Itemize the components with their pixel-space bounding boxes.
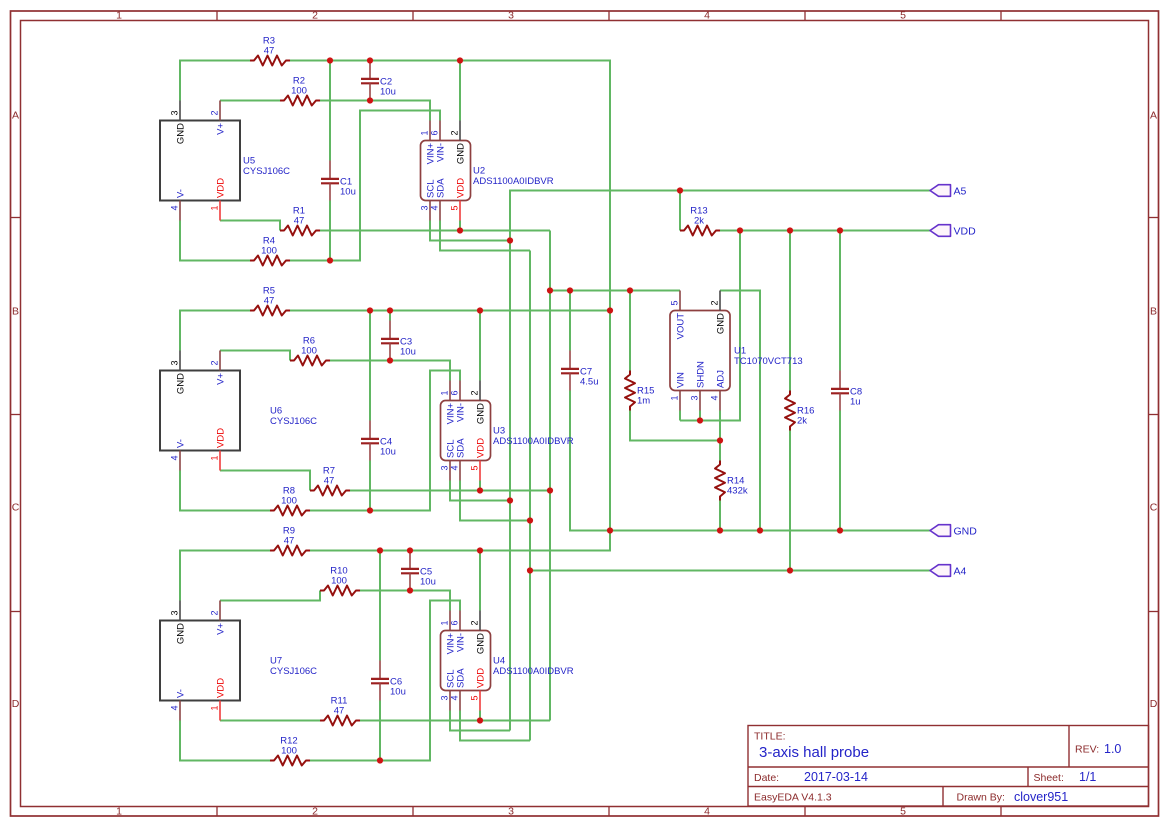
net flag A5 xyxy=(930,185,967,198)
junction xyxy=(367,97,373,103)
junction xyxy=(717,437,723,443)
net flag A4 xyxy=(930,565,967,578)
junction xyxy=(607,307,613,313)
svg-text:4: 4 xyxy=(450,466,460,471)
svg-text:100: 100 xyxy=(301,346,317,357)
svg-text:2: 2 xyxy=(710,300,720,305)
adc U2 xyxy=(420,121,554,221)
resistor R11 xyxy=(320,696,360,726)
resistor R12 xyxy=(270,736,310,766)
svg-text:VIN-: VIN- xyxy=(436,143,447,162)
svg-text:EasyEDA V4.1.3: EasyEDA V4.1.3 xyxy=(754,792,832,804)
junction xyxy=(527,567,533,573)
svg-text:1: 1 xyxy=(210,206,220,211)
resistor R1 xyxy=(280,206,320,236)
adc U4 xyxy=(440,611,574,711)
svg-text:5: 5 xyxy=(450,206,460,211)
wire V+2 xyxy=(220,351,290,361)
svg-text:2: 2 xyxy=(210,360,220,365)
svg-text:10u: 10u xyxy=(400,347,416,358)
pin 1 VDD xyxy=(219,701,221,721)
svg-text:5: 5 xyxy=(900,806,906,818)
pin 2 V+ xyxy=(219,601,221,621)
wire GND xyxy=(720,291,760,531)
wire V3 xyxy=(569,291,571,351)
svg-text:1: 1 xyxy=(210,456,220,461)
svg-text:VDD: VDD xyxy=(476,668,487,688)
svg-text:ADS1100A0IDBVR: ADS1100A0IDBVR xyxy=(493,666,574,677)
svg-text:4: 4 xyxy=(450,696,460,701)
svg-text:SDA: SDA xyxy=(436,178,447,198)
resistor R8 xyxy=(270,486,310,516)
pin 4 V- xyxy=(179,201,181,221)
adc U3 xyxy=(440,381,574,481)
wire SDA xyxy=(440,221,530,251)
svg-text:CYSJ106C: CYSJ106C xyxy=(270,416,317,427)
svg-text:D: D xyxy=(12,698,20,710)
pin 4 SDA xyxy=(459,461,461,481)
pin 2 GND xyxy=(719,291,721,311)
wire V3 xyxy=(220,221,280,231)
wire GND xyxy=(290,310,610,312)
pin 1 VIN xyxy=(679,391,681,411)
wire GND xyxy=(570,391,930,531)
wire GND xyxy=(180,311,250,351)
svg-text:1/1: 1/1 xyxy=(1079,770,1096,784)
svg-text:2k: 2k xyxy=(797,416,807,427)
junction xyxy=(477,717,483,723)
svg-text:10u: 10u xyxy=(420,577,436,588)
wire GND xyxy=(310,531,610,551)
title block xyxy=(748,726,1149,807)
regulator U1 xyxy=(670,291,803,411)
pin 3 GND xyxy=(179,601,181,621)
svg-text:1: 1 xyxy=(670,396,680,401)
capacitor C5 xyxy=(401,551,436,591)
svg-text:VDD: VDD xyxy=(954,225,977,237)
svg-text:CYSJ106C: CYSJ106C xyxy=(270,666,317,677)
wire V-1 xyxy=(290,111,440,261)
junction xyxy=(507,497,513,503)
wire V-1 xyxy=(180,221,250,261)
resistor R10 xyxy=(320,566,360,596)
wire C3a xyxy=(389,311,391,321)
svg-text:GND: GND xyxy=(176,123,187,144)
wire VDD xyxy=(789,231,791,391)
svg-text:GND: GND xyxy=(176,373,187,394)
junction xyxy=(477,487,483,493)
junction xyxy=(567,287,573,293)
svg-text:2: 2 xyxy=(210,610,220,615)
svg-text:V+: V+ xyxy=(216,373,227,385)
svg-text:clover951: clover951 xyxy=(1014,790,1068,804)
pin 4 V- xyxy=(179,451,181,471)
svg-text:5: 5 xyxy=(470,466,480,471)
junction xyxy=(717,527,723,533)
svg-text:VIN: VIN xyxy=(676,372,687,388)
junction xyxy=(327,257,333,263)
svg-text:1: 1 xyxy=(440,620,450,625)
svg-text:4: 4 xyxy=(170,206,180,211)
wire GND xyxy=(180,551,270,601)
wire V+1 xyxy=(220,100,280,102)
svg-text:GND: GND xyxy=(954,525,978,537)
svg-text:432k: 432k xyxy=(727,486,748,497)
resistor R3 xyxy=(250,36,290,66)
svg-text:D: D xyxy=(1150,698,1158,710)
wire V+1 xyxy=(320,101,430,121)
wire C8a xyxy=(839,231,841,371)
svg-text:Sheet:: Sheet: xyxy=(1034,772,1064,784)
svg-text:GND: GND xyxy=(456,143,467,164)
svg-text:3: 3 xyxy=(690,396,700,401)
wire V3 xyxy=(320,230,550,232)
svg-text:A: A xyxy=(12,110,19,122)
junction xyxy=(507,237,513,243)
wire V3 xyxy=(220,471,310,491)
svg-text:A5: A5 xyxy=(954,185,967,197)
wire GND xyxy=(839,411,841,531)
svg-text:A: A xyxy=(1150,110,1157,122)
wire VDD xyxy=(699,411,701,421)
wire V-3 xyxy=(310,601,460,761)
svg-text:10u: 10u xyxy=(390,687,406,698)
svg-text:U5: U5 xyxy=(243,156,255,167)
junction xyxy=(757,527,763,533)
svg-text:3: 3 xyxy=(420,206,430,211)
wire GND xyxy=(479,551,481,611)
wire ADJ xyxy=(719,411,721,461)
junction xyxy=(377,757,383,763)
svg-text:A4: A4 xyxy=(954,565,967,577)
pin 3 SHDN xyxy=(699,391,701,411)
pin 3 SCL xyxy=(429,201,431,221)
wire V3 xyxy=(550,290,680,292)
svg-text:100: 100 xyxy=(281,496,297,507)
svg-text:VDD: VDD xyxy=(476,438,487,458)
svg-text:2: 2 xyxy=(210,110,220,115)
svg-text:VDD: VDD xyxy=(456,178,467,198)
resistor R14 xyxy=(715,461,748,501)
svg-text:47: 47 xyxy=(294,216,305,227)
net flag GND xyxy=(930,525,977,538)
wire SDA xyxy=(529,251,531,741)
svg-text:4: 4 xyxy=(170,456,180,461)
svg-text:4: 4 xyxy=(704,10,710,22)
capacitor C7 xyxy=(561,351,599,391)
svg-text:2: 2 xyxy=(450,130,460,135)
resistor R16 xyxy=(785,391,814,431)
pin 4 V- xyxy=(179,701,181,721)
junction xyxy=(547,287,553,293)
wire V3 xyxy=(549,231,551,721)
pin 5 VDD xyxy=(479,461,481,481)
wire V3 xyxy=(360,720,550,722)
svg-text:REV:: REV: xyxy=(1075,744,1099,756)
svg-text:GND: GND xyxy=(476,633,487,654)
svg-text:U7: U7 xyxy=(270,656,282,667)
hall sensor U6 xyxy=(160,351,317,471)
svg-text:GND: GND xyxy=(476,403,487,424)
svg-text:10u: 10u xyxy=(380,87,396,98)
wire V+3 xyxy=(360,591,450,611)
wire SCL xyxy=(430,221,510,241)
svg-text:100: 100 xyxy=(281,746,297,757)
wire SDA xyxy=(460,711,530,741)
svg-text:1: 1 xyxy=(440,390,450,395)
wire GND xyxy=(180,61,250,101)
svg-text:3: 3 xyxy=(170,360,180,365)
capacitor C8 xyxy=(831,371,862,411)
junction xyxy=(387,307,393,313)
svg-text:47: 47 xyxy=(324,476,335,487)
svg-text:6: 6 xyxy=(450,390,460,395)
pin 3 GND xyxy=(179,101,181,121)
svg-text:4: 4 xyxy=(704,806,710,818)
svg-text:CYSJ106C: CYSJ106C xyxy=(243,166,290,177)
svg-text:VDD: VDD xyxy=(216,428,227,448)
junction xyxy=(457,227,463,233)
pin 6 VIN- xyxy=(439,121,441,141)
wire SCL xyxy=(450,481,510,501)
wire V-2 xyxy=(310,371,460,511)
pin 1 VDD xyxy=(219,451,221,471)
svg-text:4: 4 xyxy=(710,396,720,401)
svg-text:3: 3 xyxy=(508,806,514,818)
junction xyxy=(677,187,683,193)
svg-text:100: 100 xyxy=(331,576,347,587)
junction xyxy=(367,507,373,513)
svg-text:100: 100 xyxy=(261,246,277,257)
svg-text:4.5u: 4.5u xyxy=(580,377,599,388)
junction xyxy=(627,287,633,293)
svg-text:C: C xyxy=(12,502,20,514)
svg-text:2: 2 xyxy=(470,620,480,625)
pin 5 VDD xyxy=(479,691,481,711)
resistor R6 xyxy=(290,336,330,366)
svg-text:C: C xyxy=(1150,502,1158,514)
wire SCL xyxy=(450,711,510,731)
resistor R9 xyxy=(270,526,310,556)
junction xyxy=(607,527,613,533)
svg-text:U2: U2 xyxy=(473,166,485,177)
pin 6 VIN- xyxy=(459,611,461,631)
pin 1 VIN+ xyxy=(449,381,451,401)
junction xyxy=(327,57,333,63)
pin 5 VOUT xyxy=(679,291,681,311)
junction xyxy=(787,567,793,573)
wire V+2 xyxy=(330,361,450,381)
wire V-2 xyxy=(180,471,270,511)
junction xyxy=(407,587,413,593)
pin 1 VIN+ xyxy=(449,611,451,631)
svg-text:2: 2 xyxy=(312,10,318,22)
svg-text:Date:: Date: xyxy=(754,772,779,784)
junction xyxy=(837,227,843,233)
wire ADJ xyxy=(630,411,720,441)
pin 4 ADJ xyxy=(719,391,721,411)
svg-text:6: 6 xyxy=(430,130,440,135)
wire V-3 xyxy=(180,721,270,761)
svg-text:GND: GND xyxy=(176,623,187,644)
junction xyxy=(407,547,413,553)
wire GND xyxy=(290,61,610,531)
pin 2 GND xyxy=(459,121,461,141)
svg-text:1: 1 xyxy=(116,806,122,818)
wire SDA xyxy=(789,431,791,571)
svg-text:SHDN: SHDN xyxy=(696,361,707,388)
svg-text:3: 3 xyxy=(170,110,180,115)
svg-text:47: 47 xyxy=(264,296,275,307)
wire V3 xyxy=(479,481,481,491)
resistor R2 xyxy=(280,76,320,106)
pin 3 SCL xyxy=(449,461,451,481)
svg-text:4: 4 xyxy=(430,206,440,211)
resistor R4 xyxy=(250,236,290,266)
capacitor C6 xyxy=(371,661,406,701)
svg-text:U1: U1 xyxy=(734,346,746,357)
svg-text:1u: 1u xyxy=(850,397,861,408)
pin 1 VDD xyxy=(219,201,221,221)
wire V3 xyxy=(629,291,631,371)
svg-text:3: 3 xyxy=(508,10,514,22)
wire C1b xyxy=(329,201,331,261)
junction xyxy=(377,547,383,553)
svg-text:ADS1100A0IDBVR: ADS1100A0IDBVR xyxy=(473,176,554,187)
capacitor C2 xyxy=(361,61,396,101)
svg-text:10u: 10u xyxy=(380,447,396,458)
svg-text:1m: 1m xyxy=(637,396,650,407)
svg-text:10u: 10u xyxy=(340,187,356,198)
svg-text:V-: V- xyxy=(176,689,187,698)
junction xyxy=(527,517,533,523)
pin 4 SDA xyxy=(439,201,441,221)
svg-text:ADS1100A0IDBVR: ADS1100A0IDBVR xyxy=(493,436,574,447)
svg-text:ADJ: ADJ xyxy=(716,370,727,388)
svg-text:1: 1 xyxy=(420,130,430,135)
svg-text:SDA: SDA xyxy=(456,438,467,458)
junction xyxy=(367,307,373,313)
wire VDD xyxy=(720,230,930,232)
svg-text:2: 2 xyxy=(312,806,318,818)
hall sensor U5 xyxy=(160,101,290,221)
wire SDA xyxy=(460,481,530,521)
capacitor C3 xyxy=(381,321,416,361)
svg-text:VDD: VDD xyxy=(216,178,227,198)
svg-text:V-: V- xyxy=(176,189,187,198)
svg-text:U3: U3 xyxy=(493,426,505,437)
wire VDD xyxy=(679,411,681,421)
svg-text:Drawn By:: Drawn By: xyxy=(957,792,1005,804)
pin 5 VDD xyxy=(459,201,461,221)
svg-text:U6: U6 xyxy=(270,406,282,417)
capacitor C4 xyxy=(361,421,396,461)
junction xyxy=(457,57,463,63)
svg-text:100: 100 xyxy=(291,86,307,97)
pin 6 VIN- xyxy=(459,381,461,401)
pin 2 V+ xyxy=(219,351,221,371)
junction xyxy=(837,527,843,533)
wire SCL xyxy=(679,191,681,231)
svg-text:5: 5 xyxy=(900,10,906,22)
junction xyxy=(547,487,553,493)
svg-text:TC1070VCT713: TC1070VCT713 xyxy=(734,356,803,367)
pin 3 SCL xyxy=(449,691,451,711)
svg-text:2k: 2k xyxy=(694,216,704,227)
junction xyxy=(477,307,483,313)
svg-text:V+: V+ xyxy=(216,623,227,635)
svg-text:2017-03-14: 2017-03-14 xyxy=(804,770,868,784)
svg-text:5: 5 xyxy=(470,696,480,701)
svg-text:VIN-: VIN- xyxy=(456,633,467,652)
pin 2 GND xyxy=(479,611,481,631)
wire GND xyxy=(459,61,461,121)
svg-text:V-: V- xyxy=(176,439,187,448)
wire V3 xyxy=(479,711,481,721)
svg-text:47: 47 xyxy=(284,536,295,547)
svg-text:B: B xyxy=(12,306,19,318)
svg-text:4: 4 xyxy=(170,706,180,711)
resistor R15 xyxy=(625,371,654,411)
wire VDD xyxy=(680,231,740,421)
capacitor C1 xyxy=(321,161,356,201)
junction xyxy=(387,357,393,363)
hall sensor U7 xyxy=(160,601,317,721)
pin 4 SDA xyxy=(459,691,461,711)
svg-text:6: 6 xyxy=(450,620,460,625)
svg-text:1: 1 xyxy=(210,706,220,711)
wire C4b xyxy=(369,461,371,511)
wire V3 xyxy=(350,490,550,492)
wire GND xyxy=(479,311,481,381)
wire SCL xyxy=(510,191,930,731)
junction xyxy=(367,57,373,63)
svg-text:V+: V+ xyxy=(216,123,227,135)
svg-text:TITLE:: TITLE: xyxy=(754,731,786,743)
resistor R13 xyxy=(680,206,720,236)
svg-text:VDD: VDD xyxy=(216,678,227,698)
wire V+3 xyxy=(220,591,320,601)
wire C6a xyxy=(379,551,381,661)
svg-text:3-axis hall probe: 3-axis hall probe xyxy=(759,744,869,761)
svg-text:SDA: SDA xyxy=(456,668,467,688)
junction xyxy=(787,227,793,233)
svg-text:B: B xyxy=(1150,306,1157,318)
svg-text:3: 3 xyxy=(440,696,450,701)
svg-text:3: 3 xyxy=(440,466,450,471)
junction xyxy=(697,417,703,423)
wire C4a xyxy=(369,311,371,421)
svg-text:U4: U4 xyxy=(493,656,505,667)
svg-text:2: 2 xyxy=(470,390,480,395)
wire C6b xyxy=(379,701,381,761)
wire GND xyxy=(719,501,721,531)
resistor R5 xyxy=(250,286,290,316)
pin 2 GND xyxy=(479,381,481,401)
svg-text:3: 3 xyxy=(170,610,180,615)
svg-text:1.0: 1.0 xyxy=(1104,742,1121,756)
pin 1 VIN+ xyxy=(429,121,431,141)
net flag VDD xyxy=(930,225,976,238)
svg-text:VOUT: VOUT xyxy=(676,313,687,340)
wire V3 xyxy=(220,720,320,722)
wire C1a xyxy=(329,61,331,161)
junction xyxy=(737,227,743,233)
svg-text:47: 47 xyxy=(264,46,275,57)
pin 3 GND xyxy=(179,351,181,371)
svg-text:GND: GND xyxy=(716,313,727,334)
wire SDA xyxy=(530,570,930,572)
